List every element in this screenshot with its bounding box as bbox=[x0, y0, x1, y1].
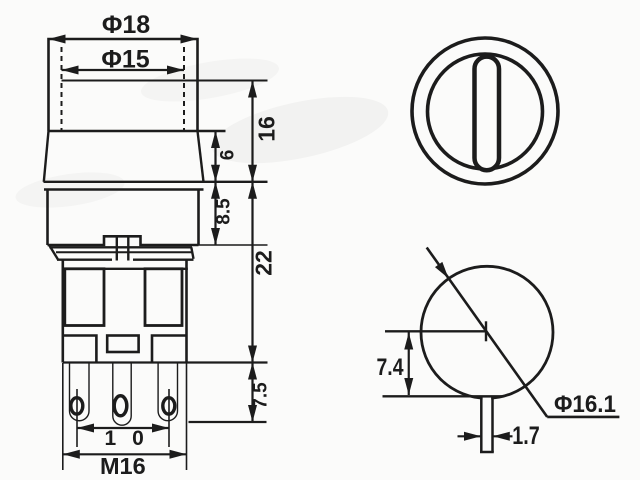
extension line pins bottom bbox=[189, 421, 267, 423]
lower-center box bbox=[107, 336, 138, 353]
dim 8.5 line bbox=[214, 182, 216, 245]
dim 10 right arrow bbox=[152, 424, 169, 433]
inner ring bbox=[428, 54, 543, 169]
svg-text:7.4: 7.4 bbox=[377, 354, 405, 381]
leader diagonal line bbox=[427, 248, 548, 417]
dim Φ18 right arrow bbox=[181, 35, 198, 44]
flange left chamfer bbox=[49, 246, 58, 260]
svg-text:1.7: 1.7 bbox=[512, 422, 540, 450]
extension line below barrel left bbox=[62, 363, 64, 470]
pin 2 hole bbox=[114, 396, 127, 416]
bezel left slope bbox=[44, 131, 49, 182]
dim 22 line bbox=[251, 182, 253, 363]
svg-text:10: 10 bbox=[105, 427, 160, 450]
extension line pin3 center bbox=[168, 389, 170, 447]
dim 7.4 top arrow bbox=[404, 333, 413, 350]
hidden line Φ15 right bbox=[183, 47, 185, 130]
svg-text:M16: M16 bbox=[100, 453, 146, 479]
leader underline bbox=[547, 416, 619, 419]
svg-text:Φ18: Φ18 bbox=[102, 11, 150, 39]
dim 6 bottom arrow bbox=[211, 165, 220, 182]
pin 3 outline bbox=[158, 363, 177, 421]
flange bottom edge right part bbox=[133, 259, 194, 261]
flange right chamfer bbox=[191, 247, 193, 258]
svg-text:8.5: 8.5 bbox=[214, 198, 235, 225]
dim M16 right arrow bbox=[170, 450, 187, 459]
cutout circle bbox=[421, 266, 553, 398]
dim 6 line bbox=[214, 131, 216, 182]
watermark smudge 2 bbox=[138, 50, 282, 110]
dim 10 left arrow bbox=[77, 424, 94, 433]
dim 10 line bbox=[77, 427, 169, 429]
svg-text:Φ15: Φ15 bbox=[101, 46, 149, 74]
dim 22 top arrow bbox=[248, 182, 257, 199]
cap outline (button head) bbox=[49, 39, 198, 131]
extension line pin1 center bbox=[76, 389, 78, 447]
left window bbox=[65, 269, 104, 326]
dim 16 line bbox=[251, 81, 253, 182]
pin 1 outline bbox=[70, 363, 90, 421]
extension line for 8.5 bottom bbox=[199, 244, 268, 246]
barrel left edge bbox=[61, 260, 64, 363]
watermark smudge 3 bbox=[13, 167, 126, 214]
flange mid line bbox=[56, 251, 192, 253]
dim 8.5 bottom arrow bbox=[211, 228, 220, 245]
body bottom with center slot bbox=[48, 236, 199, 245]
barrel right edge bbox=[185, 260, 188, 363]
pin 2 outline bbox=[113, 363, 131, 425]
dim 1.7 right arrow bbox=[493, 432, 510, 441]
body left edge bbox=[46, 190, 49, 246]
svg-text:7.5: 7.5 bbox=[251, 382, 272, 409]
flange bottom edge left part bbox=[57, 259, 112, 261]
dim 7.5 top arrow bbox=[248, 363, 257, 380]
center tick bbox=[485, 321, 487, 341]
bottom tangent line bbox=[383, 395, 504, 397]
keyway tab bottom bbox=[480, 451, 494, 454]
extension line top of 16 bbox=[62, 80, 268, 82]
outer ring bbox=[412, 38, 558, 184]
hidden line Φ15 left bbox=[61, 47, 63, 130]
center post right bbox=[127, 236, 129, 260]
dim 7.4 bottom arrow bbox=[404, 378, 413, 395]
keyway tab right wall bbox=[491, 397, 494, 453]
dim 6 top arrow bbox=[211, 131, 220, 148]
bezel bottom edge / extension for 16-22-6-8.5 bbox=[44, 181, 268, 183]
body right edge bbox=[197, 190, 200, 246]
dim Φ15 right arrow bbox=[167, 66, 184, 75]
svg-text:6: 6 bbox=[218, 150, 239, 161]
center horizontal line bbox=[385, 330, 487, 332]
dim 8.5 top arrow bbox=[211, 182, 220, 199]
svg-text:16: 16 bbox=[254, 116, 280, 142]
selector knob slot bbox=[475, 57, 500, 171]
dim M16 left arrow bbox=[63, 450, 80, 459]
pin 1 hole bbox=[71, 398, 83, 414]
cap bottom edge / extension for 6 bbox=[49, 130, 226, 132]
dim 1.7 left line bbox=[458, 435, 481, 437]
pin 3 hole bbox=[163, 398, 175, 414]
dim 16 bottom arrow bbox=[248, 165, 257, 182]
dim Φ18 left arrow bbox=[49, 35, 66, 44]
dim 7.5 bottom arrow bbox=[248, 405, 257, 422]
keyway tab interior mask bbox=[483, 398, 492, 451]
keyway tab left wall bbox=[480, 397, 483, 453]
dim 1.7 right line bbox=[493, 435, 513, 437]
dim 22 bottom arrow bbox=[248, 346, 257, 363]
dim Φ15 left arrow bbox=[62, 66, 79, 75]
leader arrowhead on circle bbox=[435, 262, 452, 281]
dim M16 line bbox=[63, 453, 187, 455]
barrel window top line bbox=[63, 268, 188, 270]
body top edge bbox=[44, 188, 204, 190]
flange top edge bbox=[49, 246, 192, 248]
bezel right slope bbox=[198, 131, 204, 182]
extension line below barrel right bbox=[186, 363, 188, 470]
svg-text:22: 22 bbox=[251, 250, 277, 276]
barrel bottom edge / extension for 22-7.5 bbox=[63, 361, 268, 363]
svg-text:Φ16.1: Φ16.1 bbox=[554, 391, 616, 418]
right window bbox=[145, 269, 182, 326]
dim Φ15 line bbox=[62, 69, 185, 71]
dim 16 top arrow bbox=[248, 81, 257, 98]
lower-right box bbox=[152, 336, 187, 363]
center post left bbox=[116, 236, 118, 260]
watermark smudge 1 bbox=[206, 84, 394, 176]
lower-left box bbox=[63, 336, 97, 363]
dim 1.7 left arrow bbox=[464, 432, 481, 441]
dim 7.5 line bbox=[251, 363, 253, 423]
dim 7.4 line bbox=[408, 333, 410, 396]
